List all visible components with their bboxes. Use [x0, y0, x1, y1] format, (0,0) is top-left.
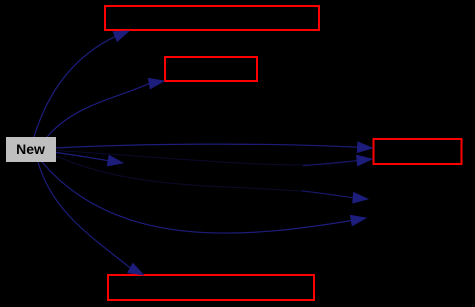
edge New->right box (upper)	[56, 142, 373, 153]
edge New->hidden node C	[42, 162, 366, 233]
node New (current)	[6, 137, 56, 162]
node bottom box	[108, 275, 314, 300]
edge New->top box	[34, 31, 129, 137]
node second box	[165, 57, 257, 81]
node top box	[105, 6, 319, 30]
edge New->second box	[47, 78, 164, 137]
node right box	[374, 139, 462, 164]
edge New->bottom box	[38, 162, 144, 275]
edge New->right box (lower)	[56, 151, 372, 166]
edge New->hidden node B	[56, 156, 368, 203]
svg-text:New: New	[16, 141, 45, 157]
edge New->hidden node A (short arrow)	[56, 153, 123, 167]
